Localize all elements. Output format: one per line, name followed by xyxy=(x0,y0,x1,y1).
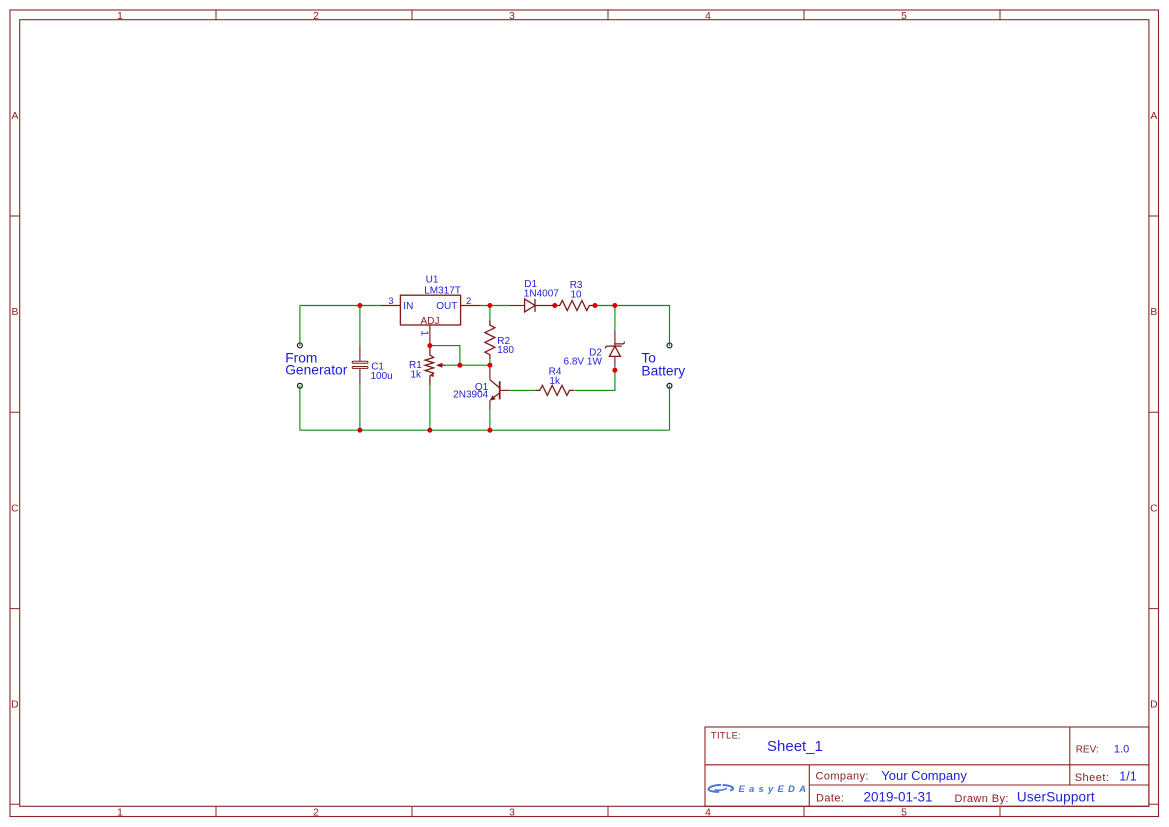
svg-text:A: A xyxy=(1150,111,1157,122)
wire R1 bottom stub xyxy=(429,385,431,431)
EasyEDA logo icon xyxy=(708,785,733,792)
resistor R1 potentiometer xyxy=(425,346,434,385)
frame column numbers bottom xyxy=(117,807,907,818)
D2 value label 6.8V 1W xyxy=(564,356,603,367)
svg-text:C: C xyxy=(11,503,19,514)
svg-text:C: C xyxy=(1150,503,1158,514)
frame column numbers top xyxy=(117,11,907,22)
junction D1 cathode xyxy=(552,303,557,308)
junction Q1 emitter rail xyxy=(487,428,492,433)
svg-text:Battery: Battery xyxy=(641,363,685,378)
resistor R2 xyxy=(485,321,495,360)
junction R2 bottom/Q1 collector xyxy=(487,363,492,368)
svg-text:EasyEDA: EasyEDA xyxy=(739,784,811,795)
diode D1 1N4007 xyxy=(510,305,553,307)
svg-text:10: 10 xyxy=(571,289,583,300)
EasyEDA logo text xyxy=(739,784,811,795)
R2 reference label xyxy=(497,336,510,347)
transistor Q1 2N3904 xyxy=(490,365,510,410)
U1 pin number 1 rotated xyxy=(419,330,430,336)
Q1 emitter arrow xyxy=(490,395,496,401)
svg-text:5: 5 xyxy=(901,807,907,818)
svg-text:A: A xyxy=(11,111,18,122)
svg-text:D: D xyxy=(1150,700,1157,711)
svg-text:B: B xyxy=(11,307,18,318)
R1 value label 1k xyxy=(410,369,422,380)
U1 pin number 3 xyxy=(388,296,393,307)
svg-text:1: 1 xyxy=(117,807,123,818)
svg-text:5: 5 xyxy=(901,11,907,22)
wire OUT to D1 xyxy=(480,305,510,307)
svg-text:LM317T: LM317T xyxy=(424,285,461,296)
frame column ticks top xyxy=(216,10,1000,20)
frame row letters left xyxy=(11,111,19,711)
frame column ticks bottom xyxy=(216,806,1000,816)
wire bottom rail xyxy=(300,429,670,431)
svg-text:Generator: Generator xyxy=(285,363,348,378)
title block Date label xyxy=(816,793,844,805)
U1 pin 1 ADJ xyxy=(429,325,431,345)
capacitor C1 xyxy=(359,346,361,384)
svg-text:D: D xyxy=(11,700,18,711)
junction ADJ/R1 xyxy=(427,343,432,348)
wire wiper rail xyxy=(444,364,490,366)
U1 pin name ADJ xyxy=(421,316,440,327)
svg-text:6.8V 1W: 6.8V 1W xyxy=(564,356,603,367)
node From Generator terminal top xyxy=(297,343,302,348)
net label From Generator xyxy=(285,351,348,378)
junction D2 anode xyxy=(612,368,617,373)
zener diode D2 xyxy=(614,331,616,366)
junction C1 top xyxy=(357,303,362,308)
frame row ticks right xyxy=(1149,216,1159,609)
svg-text:3: 3 xyxy=(509,11,515,22)
svg-text:REV:: REV: xyxy=(1076,744,1099,755)
Q1 value label 2N3904 xyxy=(453,390,488,401)
svg-text:100u: 100u xyxy=(371,371,393,382)
svg-text:UserSupport: UserSupport xyxy=(1017,790,1095,805)
svg-text:1/1: 1/1 xyxy=(1119,769,1136,783)
R3 reference label xyxy=(570,280,583,291)
title block drawn by value xyxy=(1017,790,1095,805)
wire D1 to R3 xyxy=(553,305,556,307)
title block sheet name xyxy=(767,738,823,755)
title block sheet value xyxy=(1119,769,1136,783)
junction D2 branch top xyxy=(612,303,617,308)
svg-text:ADJ: ADJ xyxy=(421,316,440,327)
svg-text:OUT: OUT xyxy=(436,301,457,312)
R4 value label 1k xyxy=(549,376,561,387)
title block Company label xyxy=(816,771,869,783)
frame row letters right xyxy=(1150,111,1158,711)
svg-text:U1: U1 xyxy=(426,275,439,286)
wire R2 top stub xyxy=(489,306,491,322)
junction R1 bottom rail xyxy=(427,428,432,433)
title block TITLE label xyxy=(711,731,741,742)
D2 reference label xyxy=(589,348,602,359)
U1 reference label xyxy=(426,275,439,286)
U1 pin name IN xyxy=(403,301,413,312)
frame row ticks left xyxy=(10,216,20,609)
svg-text:B: B xyxy=(1150,307,1157,318)
wire top rail left xyxy=(300,305,381,307)
title block revision value xyxy=(1114,743,1129,755)
D1 value label 1N4007 xyxy=(524,289,559,300)
title block Drawn By label xyxy=(955,793,1009,805)
C1 value label 100u xyxy=(371,371,393,382)
U1 pin number 2 xyxy=(466,296,471,307)
R1 pin end dot xyxy=(431,374,434,377)
svg-text:4: 4 xyxy=(705,807,711,818)
U1 pin name OUT xyxy=(436,301,457,312)
svg-text:TITLE:: TITLE: xyxy=(711,731,741,742)
svg-text:Company:: Company: xyxy=(816,771,869,783)
svg-text:180: 180 xyxy=(497,345,514,356)
svg-text:1N4007: 1N4007 xyxy=(524,289,559,300)
R4 reference label xyxy=(549,367,562,378)
svg-text:Drawn By:: Drawn By: xyxy=(955,793,1009,805)
svg-text:1k: 1k xyxy=(410,369,422,380)
svg-text:1k: 1k xyxy=(549,376,561,387)
junction R3 right xyxy=(593,303,598,308)
D1 reference label xyxy=(524,279,537,290)
title block date value xyxy=(864,789,933,804)
wire R3 to right corner xyxy=(594,306,669,344)
op-amp regulator U1 body xyxy=(400,295,460,325)
C1 reference label xyxy=(371,362,384,373)
R1 reference label xyxy=(409,360,422,371)
U1 pin 2 OUT xyxy=(461,305,481,307)
svg-text:2N3904: 2N3904 xyxy=(453,390,488,401)
title block Sheet label xyxy=(1075,772,1110,784)
svg-text:2019-01-31: 2019-01-31 xyxy=(864,789,933,804)
wire left rail top vertical xyxy=(299,306,301,344)
junction OUT/R2 branch xyxy=(487,303,492,308)
wire left rail bottom vertical xyxy=(299,386,301,430)
node From Generator terminal bottom xyxy=(297,383,302,388)
node To Battery terminal bottom xyxy=(667,383,672,388)
Q1 reference label xyxy=(475,382,489,393)
svg-text:3: 3 xyxy=(388,296,393,307)
svg-text:3: 3 xyxy=(509,807,515,818)
wire ADJ to R1 jog xyxy=(430,346,460,366)
R3 value label 10 xyxy=(571,289,583,300)
svg-text:2: 2 xyxy=(466,296,471,307)
svg-text:1: 1 xyxy=(117,11,123,22)
U1 pin 3 IN xyxy=(381,305,400,307)
node To Battery terminal top xyxy=(667,343,672,348)
wire Q1 emitter to bottom rail xyxy=(489,410,491,430)
resistor R4 xyxy=(535,385,574,395)
resistor R3 xyxy=(555,301,594,311)
title block dividers xyxy=(705,727,1149,806)
wire Q1 base to R4 xyxy=(510,389,536,391)
svg-text:2: 2 xyxy=(313,807,319,818)
svg-text:Sheet:: Sheet: xyxy=(1075,772,1110,784)
wire C1 bottom stub xyxy=(359,384,361,430)
svg-text:Your Company: Your Company xyxy=(881,768,967,783)
title block REV label xyxy=(1076,744,1099,755)
frame side strip closures xyxy=(10,803,1159,805)
R1 wiper arrow xyxy=(436,363,445,368)
junction C1 bottom rail xyxy=(357,428,362,433)
net label To Battery xyxy=(641,351,685,379)
wire right rail bottom vertical xyxy=(669,386,671,430)
svg-text:1.0: 1.0 xyxy=(1114,743,1129,755)
svg-text:2: 2 xyxy=(313,11,319,22)
title block company value xyxy=(881,768,967,783)
svg-text:Date:: Date: xyxy=(816,793,844,805)
wire D2 top stub xyxy=(614,306,616,331)
U1 value label LM317T xyxy=(424,285,461,296)
junction wiper node xyxy=(457,363,462,368)
wire C1 top stub xyxy=(359,306,361,347)
svg-text:Sheet_1: Sheet_1 xyxy=(767,738,823,755)
wire R4 to D2 branch xyxy=(574,366,615,391)
title block outline xyxy=(705,727,1149,806)
svg-text:IN: IN xyxy=(403,301,413,312)
svg-text:4: 4 xyxy=(705,11,711,22)
R2 value label 180 xyxy=(497,345,514,356)
svg-text:1: 1 xyxy=(419,330,430,336)
wire R2 bottom stub xyxy=(489,359,491,365)
